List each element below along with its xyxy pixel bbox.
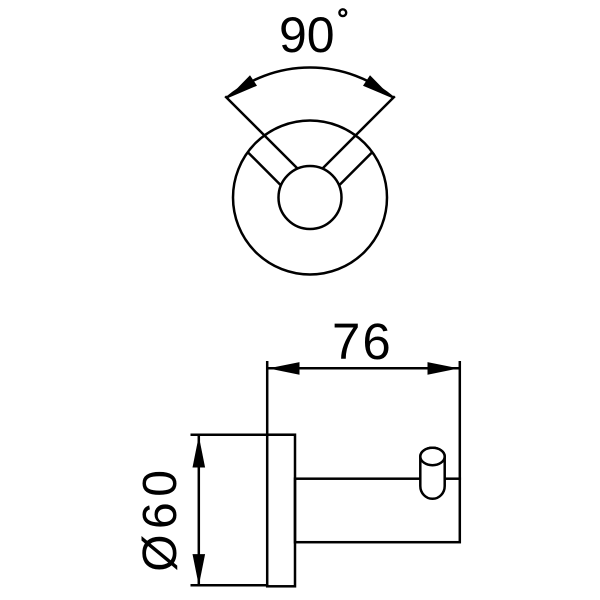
svg-text:90: 90: [279, 7, 335, 63]
svg-text:Ø60: Ø60: [134, 465, 187, 572]
svg-text:76: 76: [332, 313, 393, 370]
